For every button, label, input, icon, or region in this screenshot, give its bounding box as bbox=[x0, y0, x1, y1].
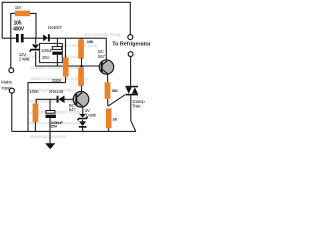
svg-text:Triac: Triac bbox=[132, 104, 142, 109]
wire ground mid rail bbox=[36, 52, 100, 66]
svg-text:10K: 10K bbox=[87, 39, 94, 44]
svg-text:1N4148: 1N4148 bbox=[49, 89, 64, 94]
wire mains phase rail with cap gap bbox=[2, 37, 106, 39]
wire mains bottom terminal leg bbox=[11, 93, 13, 131]
triac 10amp bbox=[126, 86, 138, 88]
label box 100uF bbox=[40, 43, 63, 62]
node junction dot bbox=[80, 65, 83, 68]
wire collector to 330 bbox=[107, 74, 109, 82]
resistor 100K bbox=[33, 104, 39, 123]
wire mains top terminal leg bbox=[10, 38, 12, 68]
zener 12V 1 watt bbox=[32, 45, 40, 49]
diode 1N4007 bbox=[43, 34, 48, 41]
svg-text:1 watt: 1 watt bbox=[85, 112, 97, 117]
transistor Q2 BC557 bbox=[105, 38, 107, 60]
terminal mains bottom bbox=[9, 88, 14, 93]
terminal mains top bbox=[9, 68, 14, 73]
svg-text:1M: 1M bbox=[15, 5, 21, 10]
svg-text:547: 547 bbox=[69, 107, 77, 112]
wire 330K bottom to neutral drop bbox=[28, 83, 66, 132]
resistor 1M bbox=[15, 11, 30, 17]
svg-text:To Refrigerator: To Refrigerator bbox=[112, 42, 150, 48]
resistor 330K bbox=[65, 38, 67, 82]
node divider wire bbox=[36, 99, 57, 103]
wire emitter to zener bbox=[82, 107, 84, 114]
svg-text:swagatam innovati: swagatam innovati bbox=[30, 134, 66, 139]
capacitor 105 400V bbox=[16, 34, 19, 42]
wire 12V zener top lead bbox=[35, 38, 37, 44]
resistor 330 bbox=[105, 82, 111, 99]
wire top border from left edge to refrigerator terminal bbox=[2, 2, 130, 38]
terminal refrigerator top bbox=[128, 35, 133, 40]
svg-text:25V: 25V bbox=[42, 55, 50, 60]
wire 1M loop bbox=[11, 13, 36, 38]
wire triac MT1 to rail bbox=[131, 95, 136, 131]
svg-text:400V: 400V bbox=[13, 26, 25, 32]
svg-text:25V: 25V bbox=[51, 124, 58, 129]
svg-text:557: 557 bbox=[98, 54, 106, 59]
resistor base middle bbox=[78, 67, 84, 86]
capacitor 1000uF 25V bbox=[49, 99, 51, 110]
svg-text:100K: 100K bbox=[29, 89, 39, 94]
svg-text:1 watt: 1 watt bbox=[19, 57, 31, 62]
watermark bbox=[20, 32, 121, 139]
capacitor 100uF 25V bbox=[56, 38, 58, 46]
transistor Q1 BC547 bbox=[73, 92, 89, 108]
diode 1N4148 bbox=[57, 96, 59, 103]
wire triac gate bbox=[108, 95, 125, 106]
ground earth arrow bbox=[49, 131, 51, 143]
terminal refrigerator bottom bbox=[128, 52, 133, 57]
wire bottom neutral rail bbox=[12, 130, 136, 132]
svg-text:am innovatic swag: am innovatic swag bbox=[84, 32, 121, 37]
resistor 10K bbox=[81, 38, 83, 39]
resistor 1K bbox=[106, 108, 112, 128]
wire terminal to triac bbox=[130, 57, 132, 86]
svg-text:Mains: Mains bbox=[1, 80, 13, 85]
zener 3V 1 watt bbox=[79, 114, 86, 118]
svg-text:100uF: 100uF bbox=[41, 48, 53, 53]
svg-text:1K: 1K bbox=[113, 116, 118, 121]
svg-text:1N4007: 1N4007 bbox=[48, 25, 63, 30]
svg-text:Input: Input bbox=[1, 86, 11, 91]
